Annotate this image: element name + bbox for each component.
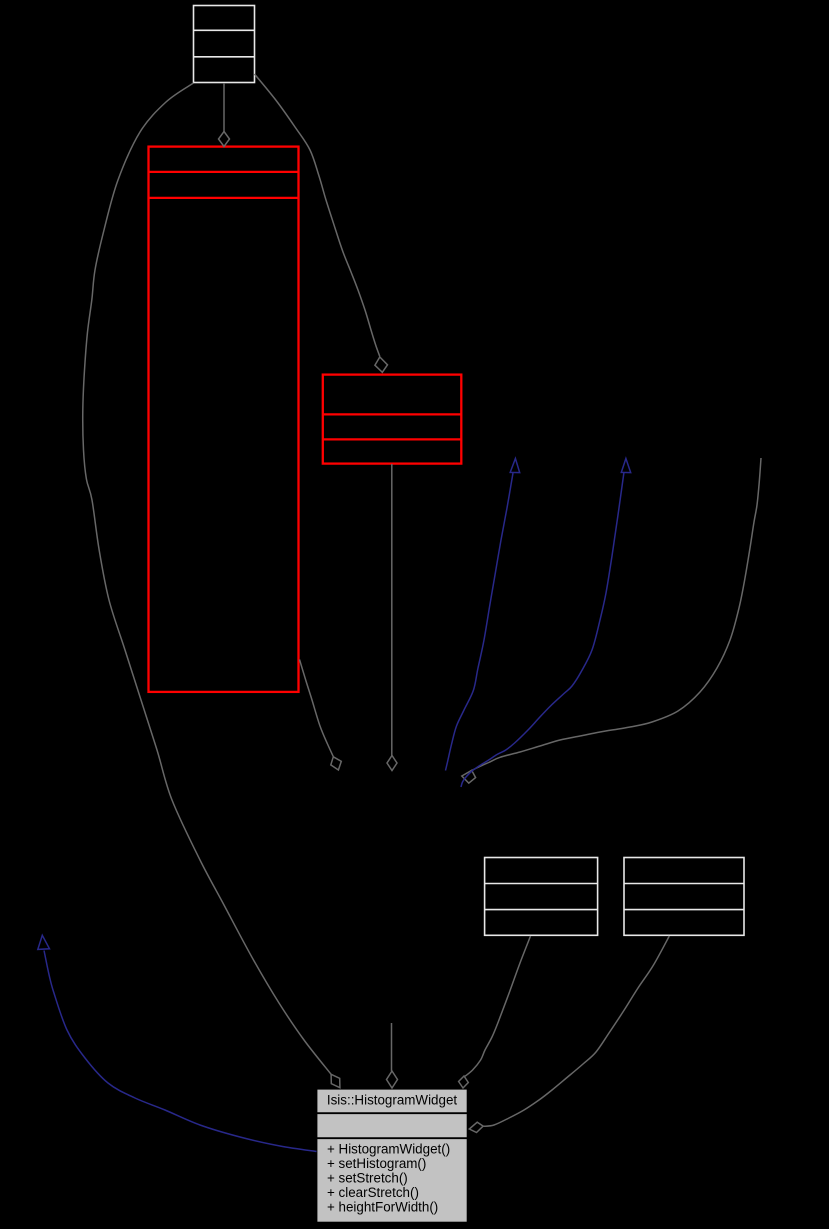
svg-text:+ heightForWidth(): + heightForWidth()	[327, 1200, 438, 1215]
edge A to C (curve right, open diamond)	[255, 74, 388, 372]
edge C to invisible node (vertical, open diamond)	[387, 464, 397, 771]
svg-text:+ HistogramWidget(): + HistogramWidget()	[327, 1142, 450, 1157]
blue inheritance edge 2 (arrowhead up)	[461, 459, 631, 788]
node E (right white class box, lower middle)	[624, 858, 744, 936]
edge invisible node to G (short vertical, open diamond)	[387, 1023, 398, 1088]
node A (top white class box)	[194, 6, 255, 83]
blue inheritance edge 1 (arrowhead up)	[446, 459, 520, 771]
svg-text:+ setHistogram(): + setHistogram()	[327, 1156, 426, 1171]
edge B to invisible node (short diagonal, open diamond)	[300, 660, 342, 771]
edge D to G (open diamond at G top)	[459, 936, 531, 1088]
edge right gray curve (open diamond end)	[462, 458, 761, 783]
node B (tall truncated red class box)	[149, 147, 299, 692]
edge A to G (long left curve, open diamond at G)	[83, 83, 340, 1088]
svg-text:+ setStretch(): + setStretch()	[327, 1171, 408, 1186]
svg-text:Isis::HistogramWidget: Isis::HistogramWidget	[327, 1093, 457, 1108]
svg-text:+ clearStretch(): + clearStretch()	[327, 1185, 419, 1200]
edge A to B (vertical, open diamond)	[219, 83, 230, 147]
node D (left white class box, lower middle)	[485, 858, 598, 936]
node G (Isis::HistogramWidget main gray node)	[317, 1089, 467, 1222]
node C (red class box)	[323, 375, 462, 464]
blue inheritance edge 3 (bottom left, arrowhead up)	[38, 935, 317, 1151]
edge E to G (open diamond at G right)	[469, 936, 669, 1133]
